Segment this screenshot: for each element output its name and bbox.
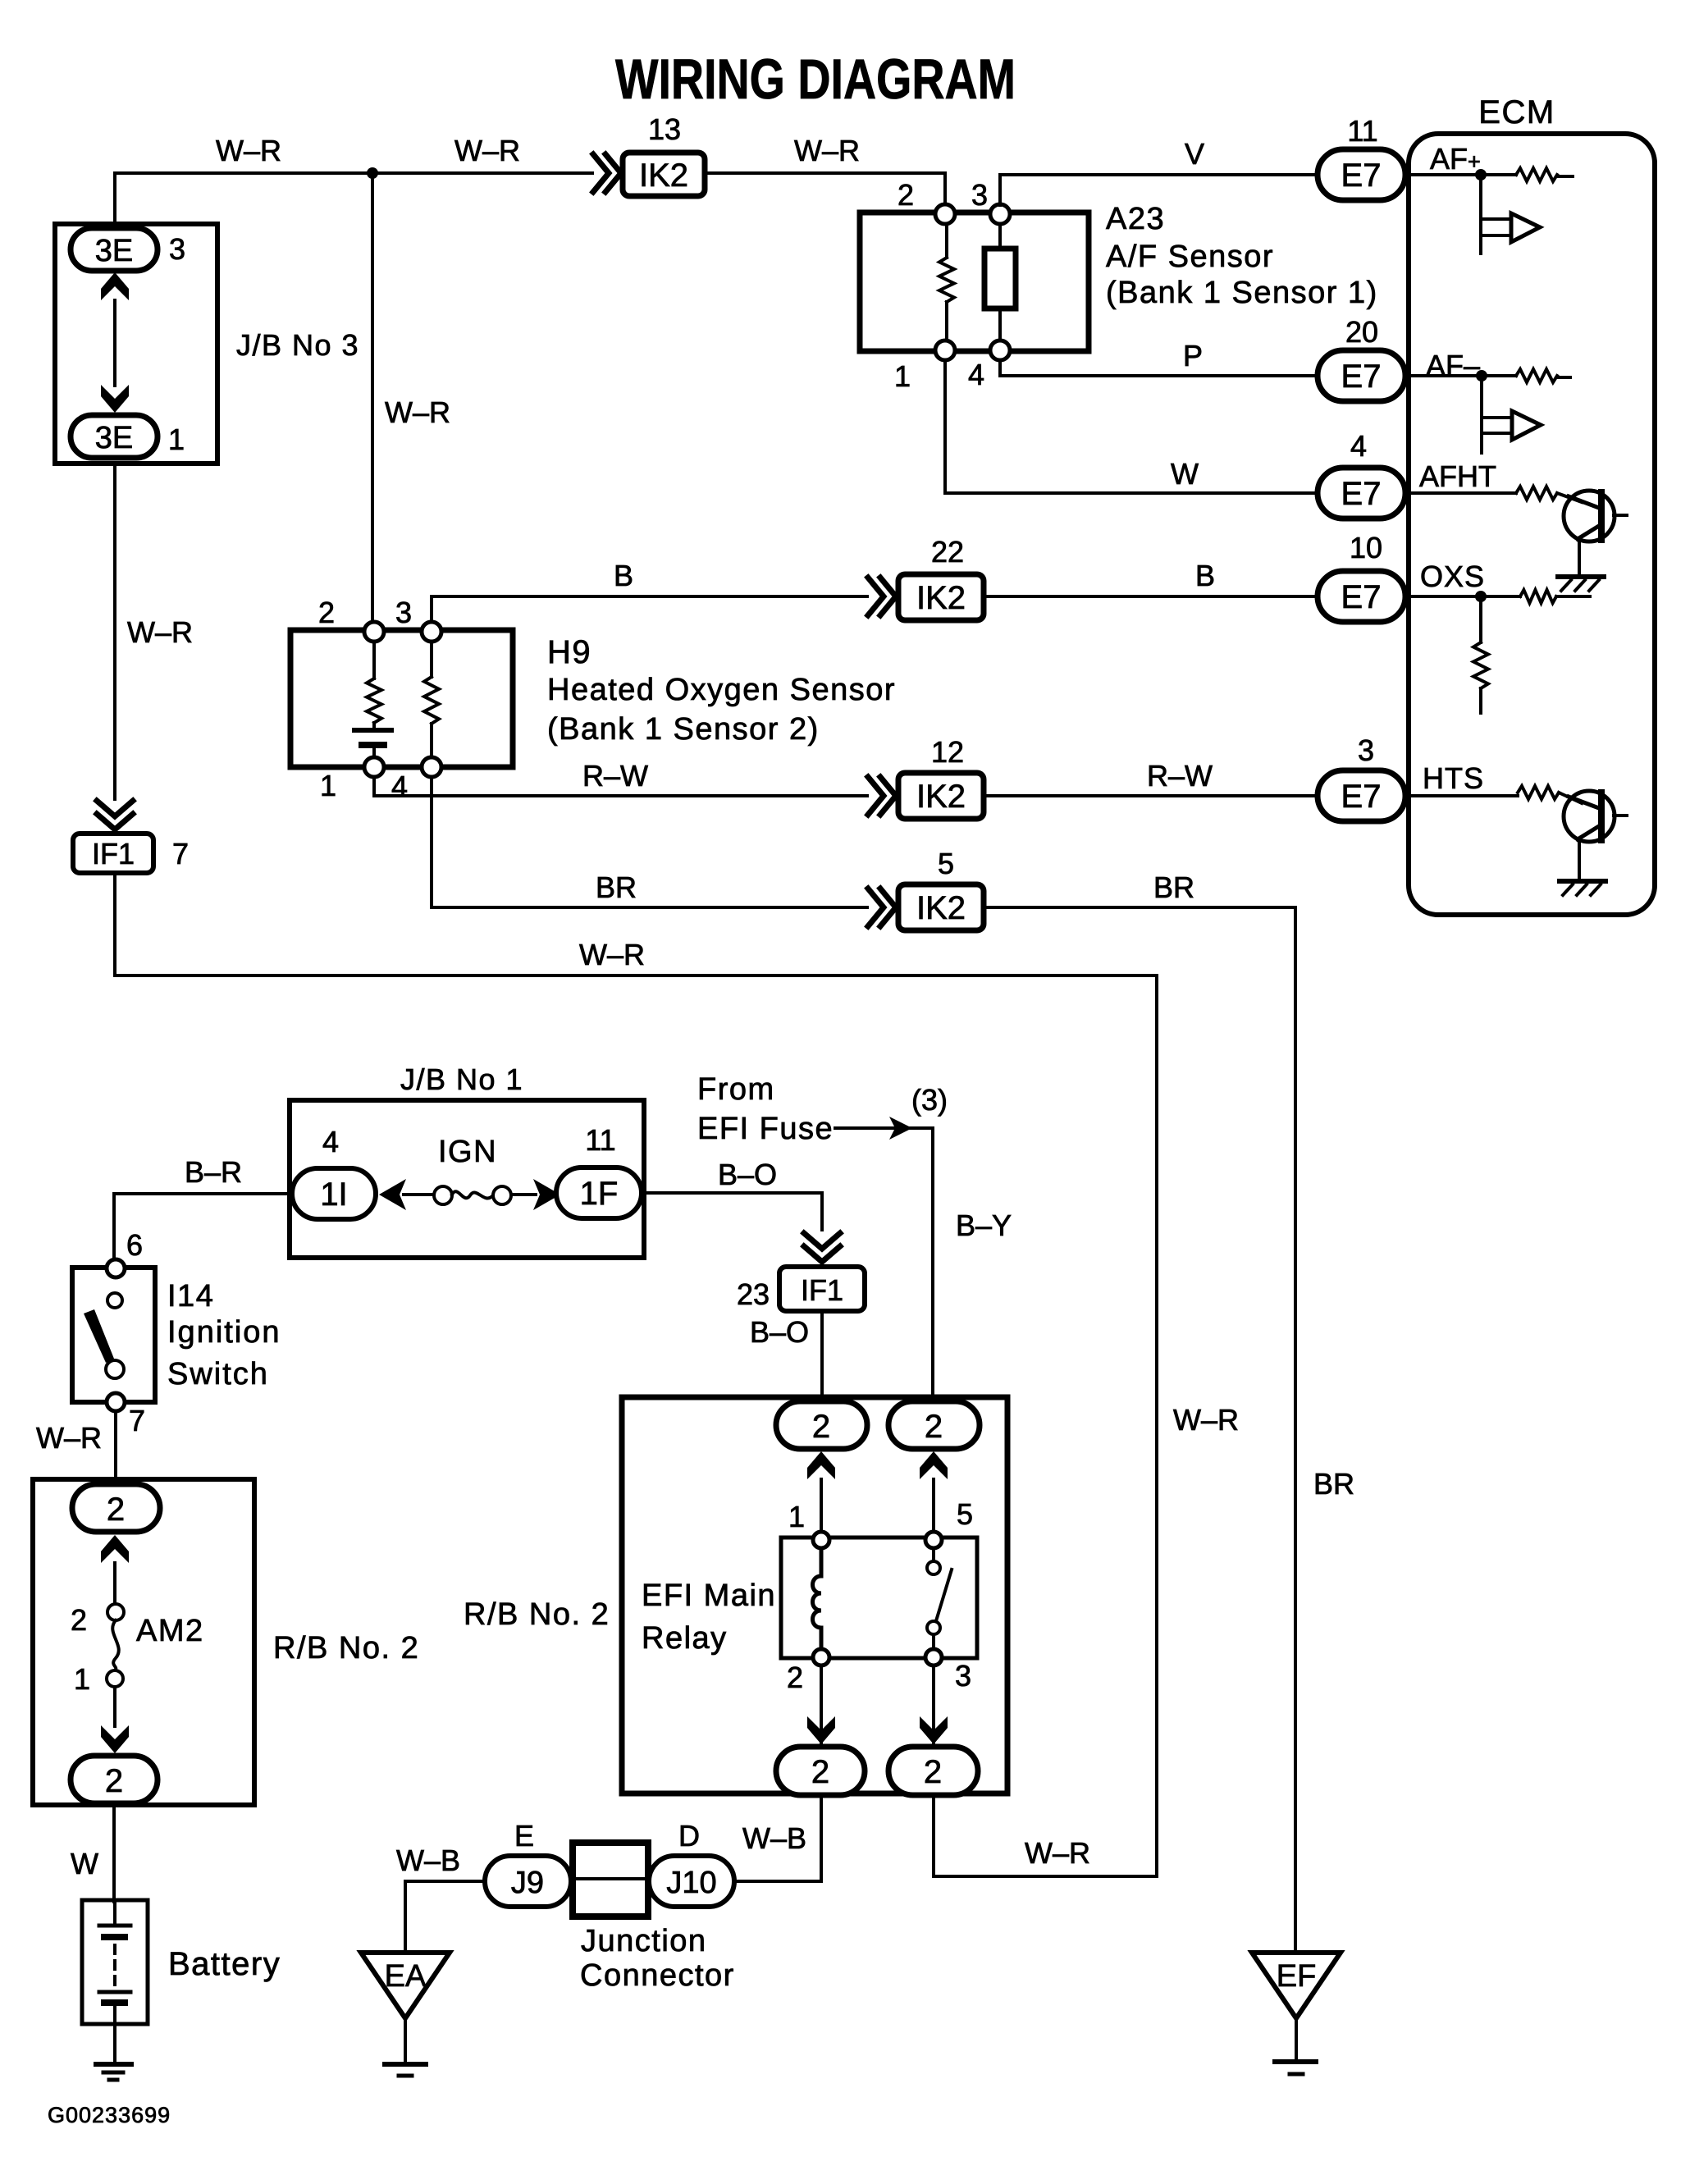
svg-text:IF1: IF1 [92, 837, 135, 870]
wire P from A23 pin 4 to ECM pin 20 [1000, 360, 1318, 376]
svg-text:7: 7 [172, 837, 189, 870]
wire down from fuse [113, 1687, 116, 1726]
wire BR from IK2(5) down to EF ground [984, 907, 1295, 1951]
wire W to battery [112, 1803, 116, 1902]
wire down to fuse AM2 [113, 1563, 116, 1604]
node junction dot at top wire [367, 167, 378, 179]
ground battery [96, 2062, 131, 2067]
wire from pin 7 to AM2 block [114, 1411, 117, 1481]
wire BR from H9 pin 4 to IK2(5) [432, 777, 867, 907]
connector IF1 (7) [73, 834, 153, 873]
svg-text:(3): (3) [911, 1083, 948, 1117]
switch contact lower [106, 1360, 124, 1378]
svg-text:2: 2 [925, 1409, 943, 1445]
ground AFHT [1558, 574, 1604, 579]
svg-text:W–R: W–R [216, 134, 281, 167]
wire B from IK2(22) to ECM pin 10 [984, 595, 1318, 598]
junction block J/B No 1 box [290, 1100, 644, 1258]
svg-text:B: B [614, 559, 633, 592]
svg-text:3E: 3E [95, 421, 133, 455]
splice arrows into IF1(7) [97, 801, 133, 829]
splice arrows into IK2(13) [593, 154, 621, 192]
svg-text:W: W [71, 1847, 98, 1880]
svg-text:3E: 3E [95, 234, 133, 268]
connector 2 (top left) [776, 1401, 867, 1449]
svg-text:W–B: W–B [396, 1844, 460, 1877]
svg-text:BR: BR [1313, 1467, 1354, 1501]
relay pin 1 [813, 1532, 829, 1548]
svg-text:EFI Main: EFI Main [642, 1579, 776, 1613]
svg-text:W–R: W–R [385, 395, 450, 429]
svg-text:E: E [514, 1819, 534, 1853]
svg-text:P: P [1183, 339, 1203, 372]
wire from relay pin 3 down [932, 1665, 935, 1743]
svg-text:2: 2 [812, 1409, 830, 1445]
svg-text:5: 5 [938, 847, 954, 880]
wire to relay pin 5 [932, 1479, 935, 1537]
svg-text:IK2: IK2 [916, 580, 966, 616]
splice arrows into IK2(5) [868, 889, 896, 926]
svg-text:Connector: Connector [580, 1958, 735, 1993]
wire W-B from relay bottom left to J10 [736, 1797, 821, 1881]
connector 2 (top) [72, 1484, 160, 1532]
wire R-W from IK2(12) to ECM pin 3 [984, 794, 1318, 797]
wire from EFI fuse with arrow [835, 1128, 933, 1400]
svg-text:I14: I14 [167, 1279, 214, 1314]
splice arrow down [101, 385, 129, 413]
splice arrows into IK2(22) [868, 578, 896, 615]
resistor inside A23 [945, 224, 948, 340]
wire V from A23 pin 3 to ECM pin 11 [1000, 175, 1318, 205]
svg-text:E7: E7 [1341, 476, 1382, 512]
svg-text:A23: A23 [1106, 202, 1165, 236]
svg-text:W–R: W–R [1025, 1836, 1090, 1870]
svg-text:J10: J10 [666, 1866, 716, 1900]
svg-text:12: 12 [931, 735, 964, 769]
fuse block box (AM2) [33, 1479, 254, 1805]
pin 3 of H9 [422, 622, 441, 642]
transistor Q HTS [1564, 791, 1627, 880]
svg-text:1: 1 [894, 359, 911, 393]
svg-text:E7: E7 [1341, 158, 1382, 194]
svg-text:4: 4 [968, 358, 984, 391]
resistor inside H9 right [430, 642, 433, 757]
svg-text:IGN: IGN [438, 1135, 497, 1169]
svg-text:B–R: B–R [185, 1155, 242, 1189]
connector IK2 (12) [898, 773, 984, 819]
battery cell inside H9 [354, 728, 391, 733]
wire from relay pin 2 down [820, 1665, 823, 1743]
svg-text:2: 2 [107, 1492, 125, 1528]
svg-text:From: From [697, 1072, 775, 1107]
wire between 3E connectors [113, 300, 116, 386]
pin 4 of H9 [422, 757, 441, 777]
wire to relay pin 1 [820, 1479, 823, 1537]
svg-text:22: 22 [931, 535, 964, 569]
svg-text:W–R: W–R [454, 134, 520, 167]
sensor H9 box [290, 630, 513, 767]
svg-text:HTS: HTS [1423, 761, 1484, 795]
svg-text:11: 11 [585, 1123, 615, 1157]
resistor pulldown OXS [1479, 596, 1482, 713]
wire W-R from junction to H9 pin 2 [371, 173, 374, 622]
connector IK2 (5) [898, 884, 984, 930]
splice arrow up [101, 272, 129, 300]
svg-text:1: 1 [320, 769, 336, 802]
svg-text:EA: EA [385, 1959, 427, 1994]
svg-text:7: 7 [129, 1404, 145, 1437]
ECM box [1409, 134, 1655, 915]
svg-text:E7: E7 [1341, 579, 1382, 615]
switch contact upper [107, 1293, 122, 1308]
svg-text:11: 11 [1347, 114, 1377, 148]
op-amp buffer AF- [1482, 376, 1512, 453]
svg-text:Junction: Junction [581, 1924, 707, 1958]
svg-text:G00233699: G00233699 [48, 2103, 171, 2127]
wire B-O from 1F to IF1(23) [642, 1193, 822, 1230]
svg-text:Heated Oxygen Sensor: Heated Oxygen Sensor [547, 673, 896, 707]
svg-text:V: V [1185, 137, 1204, 171]
svg-text:IK2: IK2 [916, 779, 966, 815]
node dot AF- [1476, 370, 1487, 382]
pin 2 of H9 [364, 622, 384, 642]
ground HTS [1560, 879, 1605, 884]
svg-text:13: 13 [648, 112, 681, 146]
svg-text:4: 4 [391, 770, 408, 803]
relay pin 5 [925, 1532, 942, 1548]
pin 1 of H9 [364, 757, 384, 777]
connector 1F [556, 1167, 642, 1218]
svg-text:2: 2 [71, 1603, 87, 1637]
svg-text:EFI Fuse: EFI Fuse [697, 1112, 834, 1146]
svg-text:R/B No. 2: R/B No. 2 [464, 1597, 610, 1632]
node dot AF+ [1475, 169, 1487, 180]
svg-text:EF: EF [1277, 1959, 1317, 1994]
wire B-O from IF1(23) to relay [820, 1311, 824, 1400]
svg-text:B–Y: B–Y [956, 1209, 1012, 1242]
svg-text:4: 4 [322, 1125, 339, 1158]
svg-text:IK2: IK2 [639, 158, 688, 194]
node dot OXS [1475, 591, 1487, 602]
relay pin 2 [813, 1649, 829, 1665]
svg-text:4: 4 [1350, 429, 1367, 463]
relay inner box [781, 1537, 977, 1658]
wire W-R top from 3E box to IK2(13) [115, 173, 592, 230]
svg-text:2: 2 [898, 178, 914, 212]
svg-text:2: 2 [924, 1754, 942, 1790]
wire AF+ internal with resistor [1405, 175, 1573, 176]
svg-text:IF1: IF1 [801, 1273, 843, 1307]
splice arrow down [101, 1725, 129, 1753]
wire W from A23 pin 1 to ECM pin 4 [945, 360, 1318, 493]
svg-text:B: B [1195, 559, 1215, 592]
svg-text:W–R: W–R [36, 1421, 102, 1455]
svg-text:Switch: Switch [167, 1357, 269, 1391]
connector IF1 (23) [779, 1267, 865, 1311]
connector 3E pin 1 [71, 415, 158, 458]
svg-text:1I: 1I [320, 1177, 347, 1213]
pin 2 of A23 [935, 204, 955, 224]
svg-text:E7: E7 [1341, 779, 1382, 815]
connector J10 [649, 1856, 734, 1907]
wire W-R from IK2(13) to A/F sensor pin 2 [705, 173, 945, 207]
wire B-R from ignition switch to 1I [114, 1194, 292, 1260]
splice arrow down left [807, 1716, 835, 1744]
svg-text:3: 3 [971, 178, 988, 212]
wire HTS internal with resistor [1405, 793, 1582, 803]
svg-text:BR: BR [1153, 870, 1194, 904]
wire W-R long loop: IF1(7) to bottom right, to relay output [115, 873, 1157, 1876]
svg-text:(Bank 1 Sensor 2): (Bank 1 Sensor 2) [547, 712, 820, 747]
svg-text:(Bank 1 Sensor 1): (Bank 1 Sensor 1) [1106, 276, 1378, 310]
splice arrows into IF1(23) [804, 1233, 840, 1262]
splice arrow down right [920, 1716, 948, 1744]
connector 2 (bottom) [71, 1756, 158, 1803]
svg-text:B–O: B–O [718, 1158, 777, 1191]
ground EF triangle [1252, 1953, 1341, 2018]
battery box [82, 1900, 148, 2024]
relay pin 3 [925, 1649, 942, 1665]
svg-text:A/F Sensor: A/F Sensor [1106, 240, 1274, 274]
svg-text:6: 6 [126, 1228, 143, 1262]
splice arrow up [101, 1535, 129, 1563]
connector IK2 (22) [898, 574, 984, 620]
svg-text:AM2: AM2 [136, 1614, 204, 1648]
relay coil [813, 1548, 822, 1649]
relay switch [934, 1548, 952, 1649]
svg-text:J9: J9 [511, 1866, 544, 1900]
heater element inside A23 [998, 224, 1002, 340]
svg-text:3: 3 [955, 1659, 971, 1693]
svg-text:H9: H9 [547, 634, 591, 670]
svg-text:R–W: R–W [582, 759, 648, 793]
wire R-W from H9 pin 1 to IK2(12) [374, 777, 867, 796]
svg-text:1: 1 [74, 1662, 90, 1696]
svg-text:BR: BR [596, 870, 637, 904]
svg-text:J/B No 3: J/B No 3 [236, 328, 359, 362]
svg-text:1F: 1F [580, 1176, 619, 1212]
svg-text:D: D [678, 1819, 700, 1853]
svg-text:3: 3 [1358, 733, 1374, 767]
splice arrow up right [920, 1451, 948, 1479]
wire W-R down left column [113, 464, 116, 799]
svg-text:20: 20 [1345, 315, 1378, 349]
svg-text:Relay: Relay [642, 1621, 728, 1656]
svg-text:W–R: W–R [794, 134, 860, 167]
svg-text:J/B No 1: J/B No 1 [400, 1062, 523, 1096]
connector 1I [292, 1168, 376, 1219]
svg-text:W–B: W–B [742, 1821, 806, 1855]
wire OXS internal with resistor [1405, 595, 1590, 598]
svg-text:10: 10 [1350, 531, 1382, 564]
svg-text:3: 3 [169, 232, 185, 266]
svg-text:ECM: ECM [1478, 94, 1555, 130]
ground EA triangle [361, 1953, 450, 2018]
svg-text:AFHT: AFHT [1419, 459, 1496, 493]
switch I14 ignition box [72, 1268, 155, 1402]
connector 3E pin 3 [71, 228, 158, 271]
svg-text:5: 5 [957, 1497, 973, 1531]
pin 6 [107, 1259, 125, 1277]
battery cells [113, 1900, 116, 1923]
transistor Q AFHT [1564, 491, 1627, 575]
splice arrows into IK2(12) [868, 777, 896, 815]
splice arrow up left [807, 1451, 835, 1479]
wire W-B from J9 to EA [405, 1881, 485, 1953]
svg-text:3: 3 [395, 596, 412, 629]
svg-text:2: 2 [787, 1661, 803, 1694]
op-amp buffer AF+ [1481, 175, 1511, 254]
svg-text:R–W: R–W [1147, 759, 1213, 793]
svg-text:Ignition: Ignition [167, 1315, 281, 1350]
junction block J/B No 3 box [55, 224, 217, 464]
svg-text:W: W [1171, 457, 1199, 491]
connector 2 (bottom right) [888, 1747, 978, 1795]
svg-text:2: 2 [105, 1763, 123, 1799]
svg-text:OXS: OXS [1420, 560, 1485, 593]
connector IK2 (13) [623, 153, 705, 196]
fuse IGN [379, 1179, 406, 1210]
svg-text:WIRING DIAGRAM: WIRING DIAGRAM [615, 48, 1016, 111]
svg-text:2: 2 [811, 1754, 829, 1790]
relay block R/B No 2 box [622, 1397, 1007, 1793]
svg-text:Battery: Battery [168, 1946, 281, 1982]
switch blade [84, 1309, 114, 1363]
svg-text:E7: E7 [1341, 359, 1382, 395]
resistor inside H9 left [372, 642, 376, 727]
fuse AM2 [107, 1604, 124, 1620]
junction connector box [573, 1843, 648, 1917]
wire B from H9 pin 3 to IK2(22) [432, 596, 867, 622]
pin 7 [107, 1393, 125, 1411]
svg-text:W–R: W–R [1173, 1403, 1239, 1437]
pin 3 of A23 [990, 204, 1010, 224]
connector 2 (top right) [888, 1401, 980, 1449]
svg-text:IK2: IK2 [916, 890, 966, 926]
svg-text:W–R: W–R [579, 938, 645, 971]
pin 1 of A23 [935, 340, 955, 360]
svg-text:B–O: B–O [750, 1315, 809, 1349]
svg-text:23: 23 [737, 1277, 770, 1311]
pin 4 of A23 [990, 340, 1010, 360]
sensor A23 box [860, 212, 1089, 351]
svg-text:1: 1 [168, 423, 185, 456]
svg-text:2: 2 [318, 596, 335, 629]
svg-text:W–R: W–R [127, 615, 193, 649]
svg-text:R/B No. 2: R/B No. 2 [273, 1631, 419, 1665]
connector 2 (bottom left) [776, 1747, 865, 1795]
wire AFHT internal with resistor [1405, 493, 1582, 502]
svg-text:1: 1 [788, 1500, 805, 1533]
connector J9 [485, 1856, 571, 1907]
wire AF- internal with resistor [1405, 376, 1570, 377]
